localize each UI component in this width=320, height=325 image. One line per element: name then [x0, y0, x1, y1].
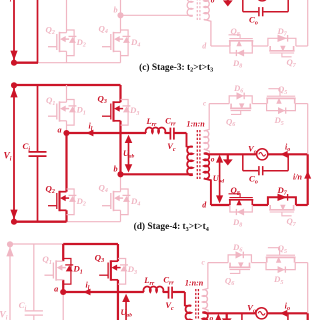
source Vo — [256, 308, 267, 319]
transistor Q1 — [48, 85, 69, 133]
wire secondary right vertical (upper) — [307, 263, 309, 314]
wire node o line — [206, 312, 256, 314]
wire node d line — [211, 204, 230, 206]
body diode loop of Q8 — [230, 205, 252, 216]
wire top rail — [10, 243, 63, 245]
transformer core — [197, 0, 200, 21]
svg-text:a: a — [54, 284, 58, 293]
body diode loop of Q8 — [230, 46, 252, 57]
current arrow il — [83, 289, 90, 296]
body diode loop of Q4 — [121, 30, 131, 56]
wire top rail — [14, 84, 121, 86]
svg-text:(d) Stage-4: t3>t>t4: (d) Stage-4: t3>t>t4 — [134, 221, 209, 233]
capacitor Ci — [29, 0, 47, 63]
wire node a line — [67, 132, 147, 134]
source Vo — [257, 0, 268, 1]
circuit stage-3 (top, partially visible) — [4, 0, 308, 74]
current arrow io — [280, 310, 287, 317]
transformer secondary upper winding — [202, 290, 207, 309]
svg-text:b: b — [114, 165, 118, 174]
svg-text:1:n:n: 1:n:n — [187, 119, 206, 128]
transformer primary winding — [185, 305, 191, 307]
voltage arrow Uod — [215, 314, 222, 325]
svg-text:(c) Stage-3: t2>t>t3: (c) Stage-3: t2>t>t3 — [139, 62, 213, 74]
transistor Q2 — [48, 0, 69, 63]
capacitor Crr — [170, 128, 174, 140]
magnetizing current arrow — [223, 0, 233, 7]
body diode loop of Q2 — [67, 30, 77, 56]
voltage arrow Uab — [122, 294, 130, 325]
transistor Q4 — [102, 15, 123, 62]
transistor Q8 (channel above rail) — [229, 194, 254, 205]
wire — [163, 291, 168, 293]
magnetizing current arrow — [223, 154, 233, 165]
body diode loop of Q5 — [267, 104, 296, 115]
wire node a line — [63, 291, 144, 293]
transformer secondary lower winding — [202, 312, 209, 325]
wire secondary right vertical (lower) — [307, 0, 309, 46]
node b — [117, 12, 123, 18]
wire node b line — [121, 173, 193, 175]
body diode loop of Q4 — [121, 189, 131, 215]
inductor Lrr — [146, 128, 166, 133]
transformer core — [197, 130, 200, 180]
capacitor Ci — [25, 244, 43, 325]
wire node c line — [209, 103, 229, 105]
node a — [60, 289, 66, 295]
transistor Q3 — [99, 244, 120, 325]
svg-text:1:n:n: 1:n:n — [185, 278, 204, 287]
transformer core — [196, 289, 199, 325]
circuit stage-4 (middle) — [4, 82, 312, 233]
body diode loop of Q5 — [266, 263, 295, 274]
transformer secondary lower winding — [204, 0, 211, 46]
svg-text:a: a — [58, 125, 62, 134]
wire secondary right vertical (upper) — [307, 104, 309, 155]
wire — [165, 132, 170, 134]
circuit stage-5 (bottom, partially visible) — [0, 241, 311, 325]
body diode loop of Q6 — [228, 251, 251, 262]
transformer primary winding — [187, 146, 193, 148]
wire node b line — [121, 14, 193, 16]
transistor Q5 (channel above rail) — [266, 89, 295, 104]
svg-text:o: o — [211, 0, 215, 4]
wire node c line — [208, 262, 228, 264]
wire node d line — [211, 45, 230, 47]
body diode loop of Q7 — [268, 194, 296, 205]
transformer secondary lower winding — [204, 153, 211, 205]
svg-text:i/n: i/n — [293, 172, 302, 181]
transistor Q6 (channel below rail) — [230, 103, 251, 114]
svg-text:o: o — [211, 154, 215, 163]
capacitor Co loop — [243, 0, 288, 16]
transistor Q2 — [44, 292, 65, 325]
capacitor Co loop — [242, 313, 288, 325]
transistor Q5 (channel above rail) — [266, 248, 296, 263]
transistor Q6 (channel below rail) — [229, 262, 250, 273]
wire secondary right vertical (lower) — [307, 313, 309, 325]
voltage arrow Uod — [216, 155, 223, 204]
current arrow io — [280, 151, 287, 158]
node a — [63, 130, 69, 136]
body diode loop of Q3 — [118, 259, 128, 285]
wire — [173, 291, 185, 293]
body diode loop of Q6 — [229, 92, 252, 103]
voltage source Vi rail — [10, 82, 17, 225]
transistor Q1 — [44, 244, 65, 292]
body diode loop of Q3 — [121, 100, 131, 126]
transformer secondary upper winding — [204, 131, 209, 150]
magnetizing current arrow — [222, 313, 232, 324]
capacitor Crr — [169, 287, 173, 299]
transistor Q2 — [48, 133, 69, 222]
transistor Q8 (channel above rail) — [229, 35, 254, 46]
node o tap — [202, 312, 206, 315]
node c lead — [202, 263, 207, 290]
body diode loop of Q1 — [63, 259, 73, 285]
body diode loop of Q2 — [67, 189, 77, 215]
wire — [175, 132, 187, 134]
current arrow il — [86, 130, 93, 137]
wire bottom rail — [14, 221, 67, 223]
body diode loop of Q7 — [268, 35, 296, 46]
wire — [267, 312, 307, 314]
wire bottom rail — [14, 62, 38, 64]
inductor Lrr — [143, 287, 163, 292]
svg-text:b: b — [114, 6, 118, 15]
capacitor Co loop — [243, 154, 288, 175]
wire — [268, 153, 308, 155]
voltage source Vi rail — [6, 241, 13, 325]
transistor Q7 (channel below rail) — [269, 205, 294, 216]
body diode loop of Q1 — [67, 100, 77, 126]
wire node o line — [208, 153, 257, 155]
current arrow i/n — [304, 171, 311, 179]
transistor Q3 — [102, 0, 123, 15]
transistor Q4 — [102, 174, 123, 221]
transistor Q3 — [102, 85, 123, 174]
voltage source Vi rail — [10, 0, 17, 66]
node b — [117, 171, 123, 177]
source Vo — [257, 149, 268, 160]
transistor Q7 (channel below rail) — [269, 46, 294, 57]
voltage arrow Uab — [125, 135, 133, 173]
capacitor Ci — [29, 85, 47, 222]
node c lead — [204, 104, 209, 131]
node o tap — [204, 153, 208, 156]
wire secondary right vertical (lower) — [307, 154, 309, 205]
